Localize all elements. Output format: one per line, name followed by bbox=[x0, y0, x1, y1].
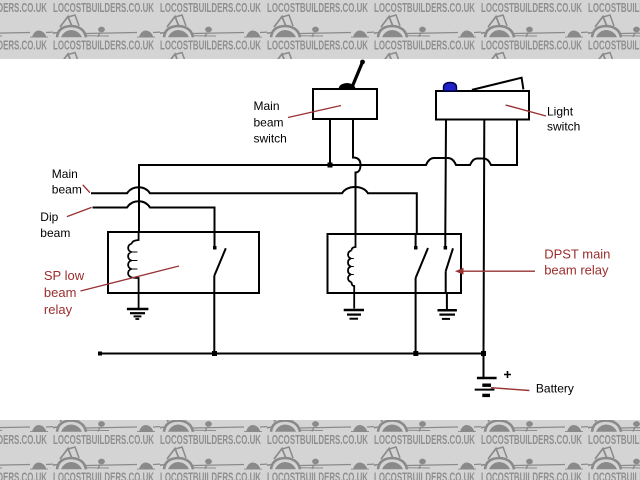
svg-text:beam: beam bbox=[52, 183, 82, 197]
svg-text:relay: relay bbox=[44, 302, 73, 317]
svg-text:Main: Main bbox=[52, 167, 78, 181]
svg-text:Light: Light bbox=[547, 104, 574, 118]
svg-text:Battery: Battery bbox=[536, 382, 574, 396]
svg-text:beam: beam bbox=[254, 115, 284, 129]
svg-text:beam: beam bbox=[40, 226, 70, 240]
svg-text:switch: switch bbox=[547, 120, 580, 134]
svg-text:switch: switch bbox=[254, 132, 287, 146]
svg-text:Main: Main bbox=[254, 99, 280, 113]
svg-text:SP low: SP low bbox=[44, 268, 85, 283]
svg-text:Dip: Dip bbox=[40, 210, 58, 224]
svg-text:beam: beam bbox=[44, 285, 77, 300]
svg-text:DPST main: DPST main bbox=[544, 247, 610, 262]
svg-text:beam relay: beam relay bbox=[544, 262, 609, 277]
